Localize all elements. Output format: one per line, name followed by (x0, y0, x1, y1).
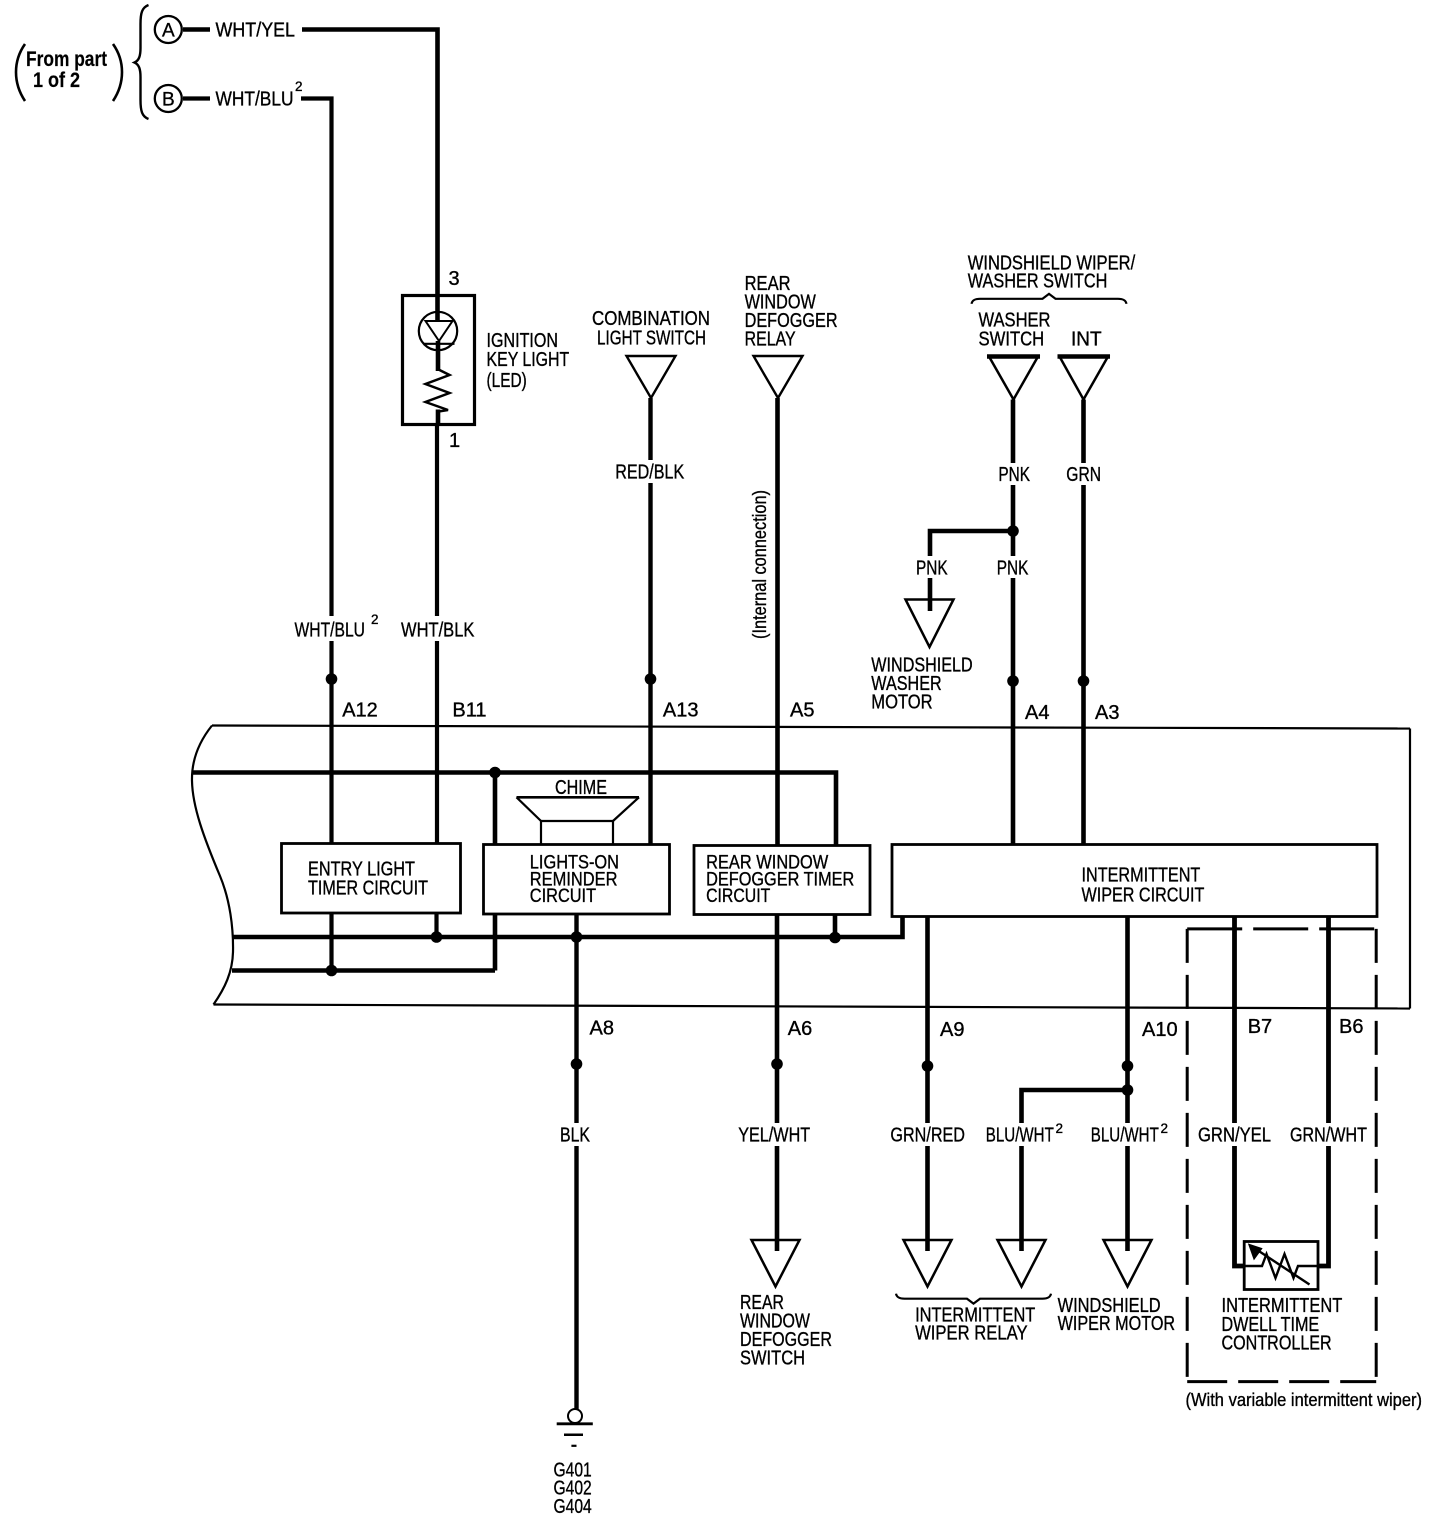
svg-text:LIGHT SWITCH: LIGHT SWITCH (597, 328, 706, 350)
connector triangle REAR WINDOW DEFOGGER RELAY (754, 356, 803, 398)
wire branch from PNK junction to windshield washer motor (930, 531, 1013, 610)
svg-text:A8: A8 (590, 1018, 614, 1040)
label IGNITION KEY LIGHT (LED) (487, 330, 570, 392)
internal vertical wire from upper bus to lower bus (493, 773, 498, 971)
svg-text:B: B (162, 90, 175, 111)
svg-text:(Internal connection): (Internal connection) (750, 490, 771, 639)
wire from entry light timer box down to lower bus (A12 continuation) (329, 913, 333, 971)
wire A6 YEL/WHT from rear window defogger timer to defogger switch (775, 915, 780, 1253)
label GRN upper (1061, 463, 1106, 486)
LED triangle (diode) (426, 321, 453, 341)
label GRN/WHT (1285, 1123, 1373, 1147)
stub of washer motor wire into triangle (928, 600, 933, 612)
wire B6 GRN/WHT from intermittent wiper circuit to dwell time controller (1317, 917, 1329, 1267)
label INTERMITTENT DWELL TIME CONTROLLER (1222, 1295, 1343, 1355)
connector triangle COMBINATION LIGHT SWITCH (627, 356, 676, 398)
svg-text:A10: A10 (1142, 1019, 1178, 1041)
svg-text:BLK: BLK (560, 1125, 591, 1147)
svg-text:CIRCUIT: CIRCUIT (706, 886, 771, 907)
wire B7 GRN/YEL from intermittent wiper circuit to dwell time controller (1235, 917, 1246, 1267)
note (From part 1 of 2) left parenthesis (16, 44, 25, 101)
svg-text:G404: G404 (554, 1496, 592, 1518)
label YEL/WHT (733, 1123, 816, 1147)
horizontal brace grouping windshield wiper/washer switch (972, 294, 1127, 304)
svg-text:MOTOR: MOTOR (871, 692, 932, 714)
entry light timer circuit box (282, 844, 461, 914)
connector triangle WINDSHIELD WIPER MOTOR (1104, 1240, 1152, 1287)
internal bus wire upper (192, 773, 836, 846)
junction dot on wire A9 (922, 1060, 934, 1072)
connector A circle (155, 16, 182, 43)
svg-text:WIPER RELAY: WIPER RELAY (915, 1323, 1028, 1345)
svg-text:A12: A12 (342, 700, 378, 722)
svg-text:3: 3 (449, 268, 460, 290)
label WHT/BLU 2 on wire A12 (290, 612, 385, 642)
ignition key light internal wire bottom (436, 410, 441, 425)
svg-text:B11: B11 (452, 700, 486, 722)
label WHT/YEL (210, 18, 302, 42)
label WASHER SWITCH (979, 310, 1051, 351)
label PNK branch right (991, 556, 1034, 580)
svg-text:GRN: GRN (1066, 464, 1101, 486)
wire WHT/BLK from ignition key light pin 1 down to entry light timer circuit (B11) (435, 425, 439, 844)
note (From part 1 of 2) right parenthesis (113, 44, 122, 101)
junction dot A8 wire on middle bus (571, 931, 583, 943)
label WINDSHIELD WIPER/WASHER SWITCH (968, 253, 1136, 293)
svg-text:A9: A9 (940, 1019, 964, 1041)
svg-text:PNK: PNK (997, 558, 1029, 580)
junction dot on wire A12 (326, 673, 338, 685)
svg-text:From part: From part (26, 48, 107, 71)
label INTERMITTENT WIPER RELAY (915, 1305, 1035, 1345)
junction dot defogger timer stub on middle bus (829, 932, 841, 944)
svg-text:WIPER MOTOR: WIPER MOTOR (1058, 1313, 1176, 1335)
junction dot on internal bus upper (489, 767, 501, 779)
wire PNK from washer switch to intermittent wiper circuit (A4) (1011, 400, 1016, 846)
label BLU/WHT 2 right (1086, 1121, 1174, 1147)
svg-text:RELAY: RELAY (745, 329, 796, 351)
wire from entry light timer box down to middle bus (B11 continuation) (434, 913, 438, 937)
ground symbol circle (568, 1409, 582, 1423)
label COMBINATION LIGHT SWITCH (592, 308, 710, 350)
svg-text:BLU/WHT: BLU/WHT (1091, 1125, 1159, 1147)
ground symbol bars (557, 1424, 593, 1446)
rheostat resistor inside controller (1244, 1254, 1318, 1278)
svg-text:PNK: PNK (916, 558, 948, 580)
label WINDSHIELD WIPER MOTOR (1058, 1295, 1176, 1335)
horizontal brace grouping intermittent wiper relay triangles (896, 1294, 1051, 1304)
junction dot A12 on lower bus (326, 965, 338, 977)
LED circle of ignition key light (419, 312, 457, 350)
internal middle bus wire (233, 917, 903, 938)
svg-text:A5: A5 (790, 700, 814, 722)
svg-text:2: 2 (295, 79, 303, 94)
svg-text:1: 1 (449, 430, 460, 452)
rear window defogger timer circuit box (694, 846, 870, 915)
wire A8 BLK from lights-on reminder circuit to ground (574, 914, 578, 1409)
connector B circle (155, 85, 182, 112)
svg-text:A6: A6 (788, 1018, 812, 1040)
stub of A9 wire into triangle (925, 1240, 930, 1251)
svg-text:(LED): (LED) (487, 370, 527, 392)
connector triangle INT (1058, 357, 1111, 400)
svg-text:WASHER SWITCH: WASHER SWITCH (968, 271, 1108, 293)
dashed box (with variable intermittent wiper) (1187, 929, 1376, 1382)
wire A9 GRN/RED from intermittent wiper circuit (925, 917, 930, 1253)
svg-text:A: A (162, 21, 175, 42)
junction dot B11 on middle bus (431, 931, 443, 943)
label PNK branch left (911, 556, 953, 580)
svg-text:GRN/WHT: GRN/WHT (1290, 1125, 1367, 1147)
intermittent dwell time controller box (1244, 1242, 1318, 1290)
svg-text:KEY LIGHT: KEY LIGHT (487, 349, 570, 371)
svg-text:2: 2 (1161, 1121, 1169, 1136)
control unit torn left edge (192, 726, 233, 1005)
label WINDSHIELD WASHER MOTOR (871, 655, 972, 714)
internal lower bus wire (232, 968, 495, 973)
junction dot on wire A8 (571, 1058, 583, 1070)
wire RED/BLK from combination light switch to lights-on reminder circuit (A13) (648, 398, 652, 846)
stub of A6 wire into triangle (775, 1240, 780, 1251)
stub of A10 wire into triangle (1125, 1240, 1130, 1251)
lights-on reminder circuit box (484, 845, 670, 915)
connector triangle intermittent wiper relay left (904, 1240, 952, 1287)
svg-text:TIMER CIRCUIT: TIMER CIRCUIT (308, 878, 428, 900)
rheostat arrow (1249, 1244, 1310, 1285)
svg-text:INT: INT (1071, 329, 1102, 351)
svg-text:WIPER CIRCUIT: WIPER CIRCUIT (1082, 885, 1205, 907)
connector triangle intermittent wiper relay right (998, 1240, 1046, 1287)
svg-text:BLU/WHT: BLU/WHT (986, 1125, 1054, 1147)
svg-text:2: 2 (371, 612, 379, 627)
svg-text:A3: A3 (1095, 702, 1119, 724)
junction dot on wire A13 (645, 673, 657, 685)
svg-text:(With variable intermittent wi: (With variable intermittent wiper) (1186, 1390, 1423, 1410)
label WHT/BLK on wire B11 (396, 616, 479, 642)
label RED/BLK (610, 460, 690, 484)
connector triangle WINDSHIELD WASHER MOTOR (906, 600, 954, 648)
control unit outer box right edge (1409, 729, 1411, 1009)
svg-text:CIRCUIT: CIRCUIT (530, 886, 597, 907)
svg-text:CHIME: CHIME (555, 777, 607, 799)
svg-text:A4: A4 (1025, 702, 1049, 724)
svg-text:GRN/RED: GRN/RED (890, 1125, 965, 1147)
label REAR WINDOW DEFOGGER SWITCH (740, 1292, 832, 1370)
junction dot on wire A10 at branch (1122, 1084, 1134, 1096)
wire GRN from INT to intermittent wiper circuit (A3) (1081, 400, 1086, 846)
label BLU/WHT 2 left (981, 1121, 1069, 1147)
svg-text:SWITCH: SWITCH (979, 329, 1045, 351)
junction dot on wire A10 upper (1122, 1060, 1134, 1072)
svg-text:RED/BLK: RED/BLK (615, 462, 684, 484)
svg-text:YEL/WHT: YEL/WHT (738, 1125, 810, 1147)
label GRN/YEL (1193, 1123, 1277, 1147)
stub from rear window defogger timer box to middle bus (833, 915, 838, 938)
resistor inside ignition key light (426, 370, 450, 412)
branch wire BLU/WHT to second triangle (1022, 1090, 1128, 1252)
ground labels G401 G402 G404 (554, 1460, 592, 1519)
svg-text:A13: A13 (663, 700, 699, 722)
ignition key light box (403, 296, 475, 425)
svg-text:2: 2 (1056, 1121, 1064, 1136)
junction dot on wire A3 (1078, 675, 1090, 687)
ignition key light internal wire middle (436, 341, 441, 371)
svg-text:WHT/YEL: WHT/YEL (216, 20, 296, 42)
wire WHT/YEL from connector A to ignition key light pin 3 (183, 30, 438, 296)
svg-text:INTERMITTENT: INTERMITTENT (1082, 865, 1201, 887)
svg-text:SWITCH: SWITCH (740, 1348, 805, 1370)
svg-text:PNK: PNK (998, 464, 1030, 486)
svg-text:WHT/BLU: WHT/BLU (295, 620, 366, 642)
intermittent wiper circuit box (892, 845, 1377, 917)
control unit outer box top edge (212, 726, 1410, 729)
junction dot on wire A4 (1007, 675, 1019, 687)
svg-text:CONTROLLER: CONTROLLER (1222, 1333, 1332, 1355)
stub of BLU/WHT wire into triangle (1019, 1240, 1024, 1251)
LED cathode bar (424, 343, 455, 345)
junction dot on wire A6 (771, 1058, 783, 1070)
label REAR WINDOW DEFOGGER RELAY (745, 273, 838, 351)
chime speaker symbol (517, 797, 640, 845)
svg-text:WHT/BLU: WHT/BLU (216, 89, 294, 111)
label (Internal connection) rotated (747, 487, 771, 641)
curly brace grouping connectors A and B (135, 5, 149, 119)
connector triangle REAR WINDOW DEFOGGER SWITCH (752, 1240, 800, 1287)
junction dot PNK branch (1007, 525, 1019, 537)
note (From part 1 of 2) text (26, 48, 107, 92)
wire A5 internal connection from defogger relay into rear window defogger timer circuit (775, 398, 780, 846)
label PNK upper (993, 463, 1035, 486)
wire A10 BLU/WHT from intermittent wiper circuit (1125, 917, 1130, 1253)
svg-text:WHT/BLK: WHT/BLK (401, 620, 475, 642)
ignition key light internal wire top (435, 296, 440, 322)
label GRN/RED (885, 1123, 970, 1147)
control unit outer box bottom edge (214, 1005, 1411, 1009)
connector triangle WASHER SWITCH (987, 357, 1040, 400)
wire WHT/BLU from connector B down to entry light timer circuit (A12) (183, 99, 332, 844)
svg-text:B7: B7 (1248, 1016, 1272, 1038)
svg-text:GRN/YEL: GRN/YEL (1198, 1125, 1271, 1147)
label WHT/BLU with superscript 2 (210, 79, 303, 111)
svg-text:B6: B6 (1339, 1016, 1363, 1038)
label BLK (555, 1123, 596, 1147)
svg-text:1 of 2: 1 of 2 (33, 69, 80, 92)
